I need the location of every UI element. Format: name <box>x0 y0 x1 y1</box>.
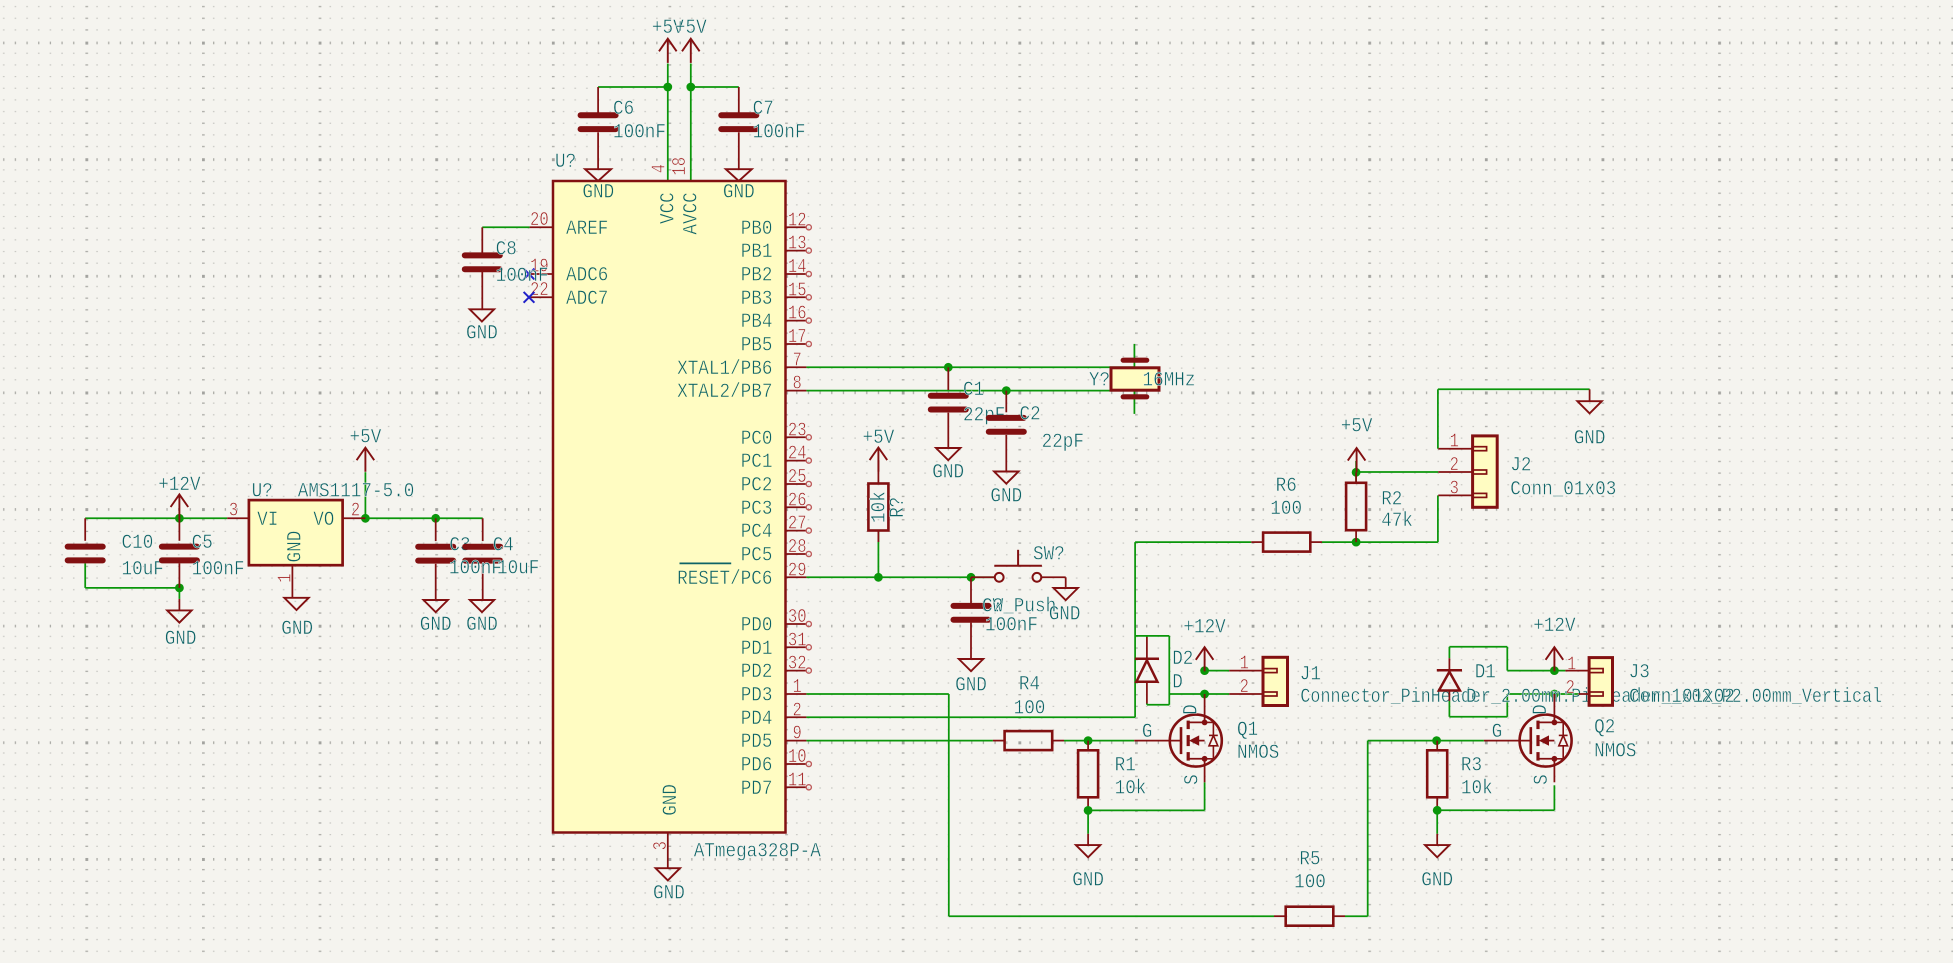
svg-text:1: 1 <box>1240 653 1249 675</box>
svg-text:17: 17 <box>788 326 807 348</box>
node VO junction <box>361 514 370 523</box>
svg-text:XTAL2/PB7: XTAL2/PB7 <box>677 381 772 404</box>
capacitor C2 <box>1005 391 1007 413</box>
svg-text:PC0: PC0 <box>741 428 773 451</box>
wire J3 pin2 row <box>1507 693 1578 695</box>
svg-text:C1: C1 <box>963 379 984 402</box>
svg-text:22pF: 22pF <box>1042 431 1084 454</box>
svg-text:+12V: +12V <box>158 474 200 497</box>
node XTAL1-C1 junction <box>944 363 953 372</box>
IC pin 27 PC4 <box>786 530 806 532</box>
svg-text:15: 15 <box>788 279 807 301</box>
svg-text:10k: 10k <box>1461 778 1493 801</box>
regulator pin 1 GND <box>291 565 293 598</box>
overline RESET <box>680 562 732 564</box>
svg-text:Conn_01x03: Conn_01x03 <box>1510 479 1616 502</box>
IC pin 28 PC5 <box>786 553 806 555</box>
IC pin 1 PD3 <box>786 693 807 695</box>
svg-text:100: 100 <box>1014 698 1046 721</box>
svg-text:7: 7 <box>793 349 802 371</box>
wire PD5 to R4 <box>806 740 993 742</box>
capacitor C7 <box>738 87 740 113</box>
svg-text:PD4: PD4 <box>741 708 773 731</box>
resistor R1 10k <box>1087 741 1089 751</box>
svg-text:18: 18 <box>669 157 691 176</box>
svg-text:PC3: PC3 <box>741 498 773 521</box>
svg-text:D2: D2 <box>1172 648 1193 671</box>
crystal Y1 16MHz <box>1121 358 1150 363</box>
IC pin 19 ADC6 <box>530 273 553 275</box>
svg-text:ADC6: ADC6 <box>566 265 608 288</box>
svg-text:3: 3 <box>1450 478 1459 500</box>
svg-text:AREF: AREF <box>566 218 608 241</box>
svg-text:1: 1 <box>1567 653 1576 675</box>
svg-text:10uF: 10uF <box>497 558 539 581</box>
wire J2 pin3 riser <box>1437 495 1439 542</box>
svg-text:PB1: PB1 <box>741 241 773 264</box>
svg-text:GND: GND <box>1421 870 1453 893</box>
power +5V arrow right <box>682 39 700 52</box>
node J3 +12V junction <box>1550 666 1559 675</box>
capacitor C4 <box>482 518 484 541</box>
wire RESET net <box>806 576 994 578</box>
svg-text:10uF: 10uF <box>122 559 164 582</box>
svg-text:1: 1 <box>1450 431 1459 453</box>
svg-text:10k: 10k <box>1115 778 1147 801</box>
svg-text:S: S <box>1531 774 1554 785</box>
svg-text:PD2: PD2 <box>741 661 773 684</box>
IC pin 14 PB2 <box>786 273 806 275</box>
svg-text:3: 3 <box>650 841 672 850</box>
svg-text:PB2: PB2 <box>741 265 773 288</box>
wire R6 right to R2 <box>1322 541 1438 543</box>
svg-text:GND: GND <box>660 784 683 816</box>
node AVCC junction <box>686 83 695 92</box>
svg-text:G: G <box>1492 721 1503 744</box>
IC top GND pin left <box>597 132 599 169</box>
wire R6 left <box>1135 541 1251 543</box>
svg-text:R?: R? <box>887 497 910 518</box>
svg-text:GND: GND <box>955 675 987 698</box>
svg-text:GND: GND <box>990 486 1022 509</box>
wire PD3 to R5 <box>806 693 948 695</box>
svg-text:14: 14 <box>788 256 807 278</box>
node R2 bottom junction <box>1352 538 1361 547</box>
svg-text:100nF: 100nF <box>985 614 1038 637</box>
svg-text:GND: GND <box>582 182 614 205</box>
wire R4 to Q1 gate <box>1064 740 1134 742</box>
svg-text:R3: R3 <box>1461 755 1482 778</box>
IC pin 13 PB1 <box>786 250 806 252</box>
wire R1 junction to GND <box>1087 810 1089 833</box>
wire R2 junction to J2 pin2 <box>1356 471 1438 473</box>
resistor R4 100 <box>993 740 1005 742</box>
svg-text:SW?: SW? <box>1033 544 1065 567</box>
svg-text:GND: GND <box>281 618 313 641</box>
diode D2 <box>1146 637 1148 659</box>
wire R3 junction to GND <box>1436 810 1438 834</box>
capacitor C5 <box>178 518 180 541</box>
node RESET-C junction <box>967 573 976 582</box>
svg-text:1: 1 <box>274 574 296 583</box>
wire C6 top <box>598 86 668 88</box>
svg-text:C10: C10 <box>122 532 154 555</box>
wire R3 bottom to Q2 source <box>1436 797 1438 810</box>
IC pin 16 PB4 <box>786 320 806 322</box>
svg-text:D: D <box>1172 672 1183 695</box>
svg-text:4: 4 <box>649 164 671 173</box>
svg-text:VCC: VCC <box>658 192 681 224</box>
svg-text:PC5: PC5 <box>741 545 773 568</box>
svg-text:24: 24 <box>788 443 807 465</box>
IC pin 32 PD2 <box>786 670 806 672</box>
svg-text:GND: GND <box>1072 870 1104 893</box>
IC pin 11 PD7 <box>786 786 806 788</box>
IC pin 8 XTAL2/PB7 <box>786 390 807 392</box>
power +12V arrow <box>171 494 189 507</box>
svg-text:25: 25 <box>788 466 807 488</box>
IC pin 24 PC1 <box>786 460 806 462</box>
svg-text:100: 100 <box>1294 872 1326 895</box>
svg-text:G: G <box>1142 721 1153 744</box>
wire C7 top <box>691 86 739 88</box>
ground C1 <box>936 448 960 460</box>
capacitor C? 100nF reset <box>970 577 972 603</box>
svg-text:2: 2 <box>1450 454 1459 476</box>
svg-text:Q1: Q1 <box>1237 719 1258 742</box>
svg-text:GND: GND <box>466 323 498 346</box>
svg-text:U?: U? <box>555 151 576 174</box>
svg-text:PB4: PB4 <box>741 311 773 334</box>
node Q2 gate junction <box>1432 736 1441 745</box>
svg-text:Q2: Q2 <box>1594 717 1615 740</box>
svg-text:VO: VO <box>313 509 334 532</box>
wire J3 pin1 row <box>1507 670 1565 672</box>
svg-text:PB0: PB0 <box>741 218 773 241</box>
wire J1 pin1 row <box>1205 670 1230 672</box>
node RESET-R junction <box>874 573 883 582</box>
power +5V arrow at regulator output <box>357 448 375 461</box>
svg-text:29: 29 <box>788 559 807 581</box>
svg-text:R5: R5 <box>1299 849 1320 872</box>
ground C10 C5 net <box>178 599 180 611</box>
svg-text:D: D <box>1466 686 1477 709</box>
svg-text:R2: R2 <box>1381 489 1402 512</box>
no-connect X pin 19 <box>524 269 535 280</box>
svg-text:GND: GND <box>653 882 685 905</box>
wire J2 pin1 to GND <box>1437 389 1439 448</box>
svg-text:XTAL1/PB6: XTAL1/PB6 <box>677 358 772 381</box>
wire R? pullup bottom <box>877 531 879 578</box>
node C5 bottom junction <box>175 584 184 593</box>
svg-text:13: 13 <box>788 233 807 255</box>
svg-text:PC2: PC2 <box>741 475 773 498</box>
node +12V junction <box>175 514 184 523</box>
ground R1 <box>1087 834 1089 845</box>
capacitor C6 <box>597 87 599 113</box>
capacitor C3 <box>435 518 437 541</box>
svg-text:J3: J3 <box>1629 662 1650 685</box>
svg-text:11: 11 <box>788 769 807 791</box>
ground J2 pin1 net <box>1577 401 1601 413</box>
node Q1 drain junction <box>1200 690 1209 699</box>
svg-text:PD7: PD7 <box>741 778 773 801</box>
svg-text:D: D <box>1530 704 1553 715</box>
IC pin 29 RESET/PC6 <box>786 576 807 578</box>
svg-text:16: 16 <box>788 303 807 325</box>
svg-text:26: 26 <box>788 489 807 511</box>
IC pin 9 PD5 <box>786 740 807 742</box>
power +5V arrow at R? <box>870 448 888 461</box>
svg-text:S: S <box>1181 774 1204 785</box>
ground C? <box>959 659 983 671</box>
connector J1 <box>1229 670 1263 672</box>
resistor R? 10k pullup <box>877 460 879 483</box>
svg-text:12: 12 <box>788 209 807 231</box>
IC pin 12 PB0 <box>786 226 806 228</box>
node Q1 gate junction <box>1084 736 1093 745</box>
wire +5V rail to AVCC <box>690 64 692 182</box>
wire regulator output <box>365 517 482 519</box>
svg-text:R6: R6 <box>1276 475 1297 498</box>
power +5V arrow left <box>659 39 677 52</box>
ground SW? <box>1054 588 1078 600</box>
svg-text:+12V: +12V <box>1183 617 1225 640</box>
svg-text:31: 31 <box>788 629 807 651</box>
resistor R6 100 <box>1251 541 1263 543</box>
svg-text:3: 3 <box>229 500 238 522</box>
capacitor C1 <box>947 367 949 390</box>
wire D1 anode loop <box>1448 701 1450 717</box>
resistor R5 100 <box>1274 915 1286 917</box>
svg-text:20: 20 <box>530 209 549 231</box>
svg-text:GND: GND <box>420 614 452 637</box>
wire D2 cathode link <box>1135 635 1169 637</box>
svg-text:U?: U? <box>252 481 273 504</box>
svg-text:R4: R4 <box>1019 674 1040 697</box>
svg-text:100nF: 100nF <box>449 558 502 581</box>
svg-text:27: 27 <box>788 513 807 535</box>
ground C4 <box>470 600 494 612</box>
svg-text:GND: GND <box>932 462 964 485</box>
svg-text:VI: VI <box>257 509 278 532</box>
svg-text:+5V: +5V <box>675 17 707 40</box>
diode D1 <box>1448 658 1450 670</box>
svg-text:16MHz: 16MHz <box>1143 370 1196 393</box>
wire PD4 to R6 rail <box>806 716 1135 718</box>
svg-text:PD3: PD3 <box>741 685 773 708</box>
svg-text:PD1: PD1 <box>741 638 773 661</box>
svg-text:2: 2 <box>351 500 360 522</box>
wire J1 pin2 row <box>1169 693 1229 695</box>
node J1 +12V junction <box>1200 666 1209 675</box>
svg-text:+5V: +5V <box>863 427 895 450</box>
svg-text:ATmega328P-A: ATmega328P-A <box>694 841 821 864</box>
resistor R3 10k <box>1436 741 1438 751</box>
IC pin 26 PC3 <box>786 506 806 508</box>
svg-text:ADC7: ADC7 <box>566 288 608 311</box>
node R3 bottom junction <box>1433 806 1442 815</box>
svg-text:2: 2 <box>1566 677 1575 699</box>
ground C3 <box>424 600 448 612</box>
switch SW? SW_Push <box>971 576 995 578</box>
svg-text:10: 10 <box>788 746 807 768</box>
svg-text:C4: C4 <box>493 535 514 558</box>
wire C5 junction to GND <box>178 588 180 599</box>
svg-text:100nF: 100nF <box>613 122 666 145</box>
no-connect X pin 22 <box>524 292 535 303</box>
svg-text:GND: GND <box>284 531 307 563</box>
svg-text:100nF: 100nF <box>496 265 549 288</box>
svg-text:2: 2 <box>1240 676 1249 698</box>
svg-text:NMOS: NMOS <box>1594 741 1636 764</box>
svg-text:PD5: PD5 <box>741 731 773 754</box>
IC pin 15 PB3 <box>786 296 806 298</box>
regulator U? AMS1117-5.0 <box>249 500 343 565</box>
svg-text:+12V: +12V <box>1533 615 1575 638</box>
svg-text:GND: GND <box>466 614 498 637</box>
svg-text:GND: GND <box>1049 603 1081 626</box>
wire regulator input <box>85 517 227 519</box>
IC pin 25 PC2 <box>786 483 806 485</box>
svg-text:PB3: PB3 <box>741 288 773 311</box>
connector J3 <box>1565 670 1589 672</box>
power +5V arrow at R2 <box>1348 448 1366 461</box>
capacitor C8 <box>481 227 483 252</box>
svg-text:C2: C2 <box>1020 404 1041 427</box>
svg-text:C5: C5 <box>192 532 213 555</box>
connector J2 <box>1438 448 1472 450</box>
svg-text:J2: J2 <box>1510 455 1531 478</box>
svg-text:1: 1 <box>793 676 802 698</box>
IC pin 10 PD6 <box>786 763 806 765</box>
node XTAL2-C2 junction <box>1002 386 1011 395</box>
resistor R2 47k <box>1355 472 1357 483</box>
wire +5V rail to VCC <box>667 64 669 182</box>
transistor Q2 NMOS <box>1520 715 1572 767</box>
svg-text:+5V: +5V <box>350 426 382 449</box>
svg-text:PB5: PB5 <box>741 335 773 358</box>
IC pin 3 GND bottom <box>667 833 669 868</box>
svg-text:PC4: PC4 <box>741 521 773 544</box>
ground C8 <box>470 309 494 321</box>
IC pin 23 PC0 <box>786 436 806 438</box>
ground R3 <box>1436 834 1438 845</box>
svg-text:30: 30 <box>788 606 807 628</box>
svg-text:RESET/PC6: RESET/PC6 <box>677 568 772 591</box>
svg-text:D1: D1 <box>1475 662 1496 685</box>
wire R2 top to +5V <box>1355 461 1357 483</box>
IC pin 17 PB5 <box>786 343 806 345</box>
svg-text:C7: C7 <box>753 98 774 121</box>
regulator pin 2 VO <box>343 517 366 519</box>
node R1 bottom junction <box>1084 806 1093 815</box>
node VCC junction <box>663 83 672 92</box>
node R2 top junction <box>1352 468 1361 477</box>
svg-text:GND: GND <box>1574 427 1606 450</box>
wire +5V drop to output <box>364 472 366 518</box>
capacitor C10 <box>84 518 86 541</box>
svg-text:J1: J1 <box>1300 664 1321 687</box>
IC pin 22 ADC7 <box>530 296 553 298</box>
svg-text:28: 28 <box>788 536 807 558</box>
svg-text:+5V: +5V <box>1341 416 1373 439</box>
svg-text:GND: GND <box>723 182 755 205</box>
svg-text:32: 32 <box>788 653 807 675</box>
svg-text:100nF: 100nF <box>192 559 245 582</box>
wire R5 to Q2 gate <box>1345 915 1368 917</box>
svg-text:9: 9 <box>793 723 802 745</box>
svg-text:Conn_01x02: Conn_01x02 <box>1629 686 1735 709</box>
svg-text:8: 8 <box>793 373 802 395</box>
svg-text:C8: C8 <box>496 239 517 262</box>
svg-text:100: 100 <box>1270 498 1302 521</box>
wire R1 bottom to Q1 source <box>1087 797 1089 810</box>
svg-text:PD6: PD6 <box>741 755 773 778</box>
IC pin 31 PD1 <box>786 646 806 648</box>
node C3 junction <box>431 514 440 523</box>
IC pin 20 AREF <box>530 226 553 228</box>
wire D2 anode loop <box>1168 636 1170 705</box>
IC pin 7 XTAL1/PB6 <box>786 366 807 368</box>
svg-text:R1: R1 <box>1115 755 1136 778</box>
regulator pin 3 VI <box>227 517 249 519</box>
wire XTAL2 net <box>806 390 1134 392</box>
IC U? ATmega328P-A body <box>553 181 786 833</box>
svg-text:Y?: Y? <box>1089 370 1110 393</box>
svg-text:23: 23 <box>788 419 807 441</box>
IC pin 30 PD0 <box>786 623 806 625</box>
svg-text:PC1: PC1 <box>741 451 773 474</box>
wire AREF to C8 <box>482 226 529 228</box>
svg-text:AVCC: AVCC <box>681 192 704 234</box>
svg-text:NMOS: NMOS <box>1237 742 1279 765</box>
node Q2 drain junction <box>1550 690 1559 699</box>
wire XTAL1 net <box>806 366 1134 368</box>
power +12V arrow at J3 <box>1546 647 1564 660</box>
svg-text:D: D <box>1180 704 1203 715</box>
power +12V arrow at J1 <box>1196 647 1214 660</box>
ground C2 <box>994 472 1018 484</box>
svg-text:100nF: 100nF <box>753 122 806 145</box>
svg-text:GND: GND <box>165 628 197 651</box>
IC top GND pin right <box>738 132 740 169</box>
svg-text:C6: C6 <box>613 98 634 121</box>
IC pin 2 PD4 <box>786 716 807 718</box>
ground IC pin 3 <box>656 868 680 880</box>
svg-text:2: 2 <box>793 699 802 721</box>
svg-text:47k: 47k <box>1381 510 1413 533</box>
wire C10 bottom to GND net <box>84 563 86 588</box>
wire D1 cathode link <box>1448 647 1450 658</box>
transistor Q1 NMOS <box>1170 715 1222 767</box>
ground regulator <box>284 598 308 610</box>
svg-text:PD0: PD0 <box>741 615 773 638</box>
